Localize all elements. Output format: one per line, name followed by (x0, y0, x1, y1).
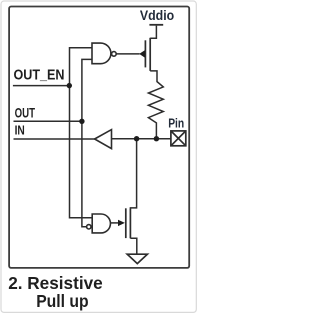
svg-text:IN: IN (15, 123, 25, 138)
svg-text:Vddio: Vddio (140, 7, 174, 23)
svg-text:2. Resistive: 2. Resistive (8, 273, 103, 293)
svg-text:Pull up: Pull up (36, 291, 88, 311)
svg-text:OUT_EN: OUT_EN (14, 68, 65, 84)
svg-text:Pin: Pin (168, 117, 184, 131)
svg-text:OUT: OUT (15, 105, 36, 121)
